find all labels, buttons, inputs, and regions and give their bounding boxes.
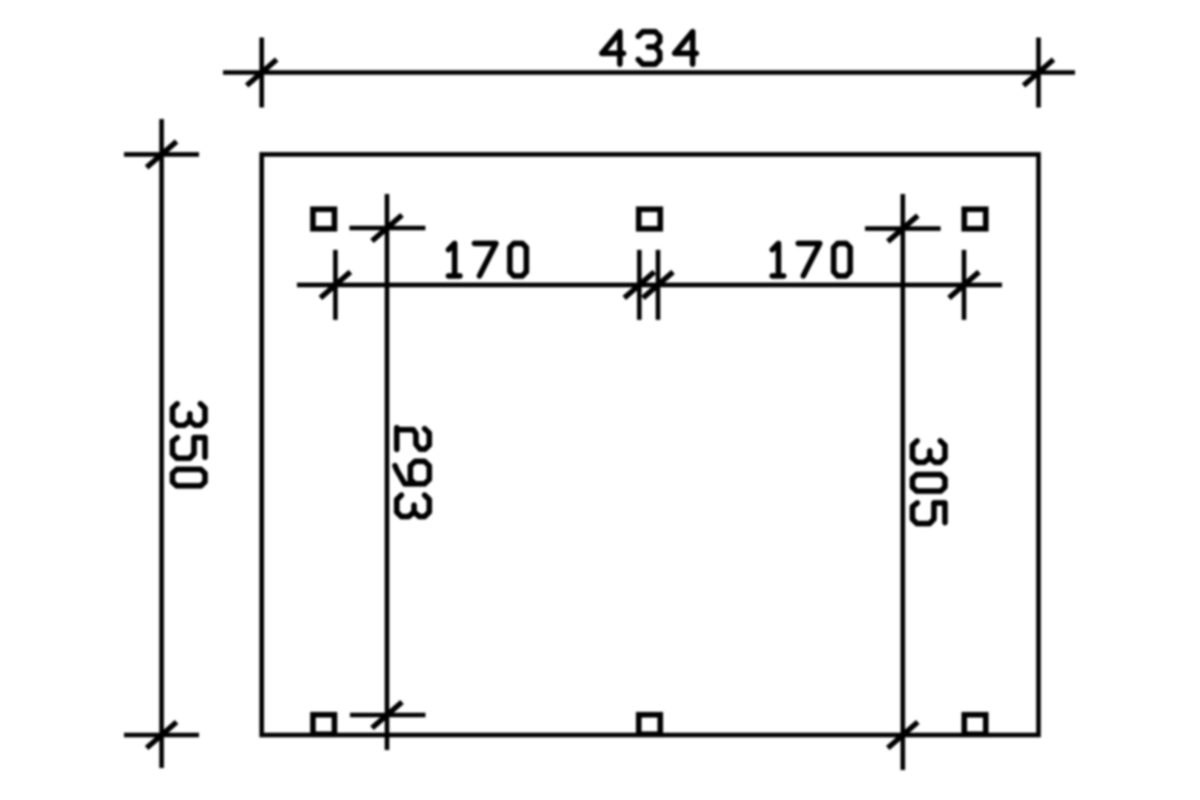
outline of carport floor plan — [262, 154, 1039, 735]
dimension line 293 (inner left vertical) — [385, 194, 390, 750]
label 170 (second) — [772, 243, 850, 276]
tick bottom of dim 305 (slash only, on outline) — [888, 722, 918, 748]
label 305 (rotated) — [912, 441, 945, 524]
tick left of dim 434 — [247, 38, 277, 108]
post bottom-right — [964, 715, 986, 735]
dimension line 170+170 (middle) — [297, 283, 1002, 288]
tick top of dim 293 — [349, 215, 425, 241]
tick top of dim 305 — [865, 216, 941, 242]
label 350 (rotated) — [173, 404, 206, 486]
tick left of middle post — [624, 250, 654, 320]
post top-middle — [639, 209, 661, 229]
post top-right — [964, 209, 986, 229]
dimension line 305 (inner right vertical) — [900, 194, 905, 770]
label 434 — [602, 32, 697, 65]
post bottom-middle — [639, 715, 661, 735]
tick bottom of dim 293 — [350, 702, 426, 728]
dimension line 350 (left) — [159, 119, 164, 768]
tick right of dim 434 — [1024, 38, 1054, 108]
label 293 (rotated) — [395, 428, 429, 517]
label 170 (first) — [448, 243, 526, 276]
tick at left post — [320, 250, 350, 320]
tick bottom of dim 350 — [124, 722, 199, 748]
tick at right post — [949, 250, 979, 320]
tick top of dim 350 — [124, 141, 199, 167]
post top-left — [313, 209, 335, 229]
dimension line 434 (top) — [223, 70, 1075, 75]
post bottom-left — [313, 715, 335, 735]
tick right of middle post — [643, 250, 673, 320]
